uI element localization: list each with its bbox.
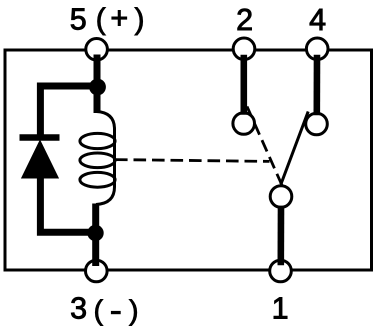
wire dashed mechanical linkage (coil to armature)	[115, 160, 270, 162]
relay body outline	[5, 50, 372, 270]
diode D1 cathode bar	[20, 134, 60, 141]
contact pin 1 (common)	[270, 186, 292, 208]
terminal pin 1	[270, 260, 292, 282]
junction dot top	[89, 79, 106, 96]
wire pin 2 to its contact	[241, 55, 248, 115]
wire pin 1 to common contact	[277, 206, 284, 265]
terminal pin 3	[86, 260, 108, 282]
contact pin 2 (normally closed)	[233, 113, 255, 135]
wire coil bottom to bottom junction to pin 3	[92, 204, 99, 267]
wire diode branch bottom (diode anode to bottom junction)	[40, 177, 95, 232]
wire armature solid (common to pin 4 contact)	[281, 112, 308, 185]
wire pin 5 to top junction to coil top	[94, 55, 101, 114]
terminal pin 2	[233, 38, 255, 60]
svg-text:(: (	[96, 3, 106, 36]
coil L1 loop 2	[80, 153, 115, 168]
svg-text:): )	[129, 295, 138, 326]
svg-text:3: 3	[70, 292, 87, 326]
terminal pin 5	[86, 39, 108, 61]
terminal pin 4	[306, 38, 328, 60]
coil L1 loop 3	[80, 172, 115, 187]
junction dot bottom	[87, 225, 103, 241]
wire pin 4 to its contact	[313, 55, 320, 115]
label pin 3 (-)	[70, 292, 138, 326]
svg-text:4: 4	[309, 3, 326, 37]
svg-text:+: +	[110, 1, 128, 35]
svg-text:(: (	[94, 295, 104, 326]
svg-text:5: 5	[70, 2, 87, 36]
wire dashed armature alternate position (to pin 2 contact)	[247, 107, 283, 188]
wire diode branch top (junction to diode cathode)	[40, 86, 97, 136]
diode D1 anode triangle	[22, 141, 59, 179]
contact pin 4 (normally open)	[306, 113, 328, 135]
svg-text:2: 2	[236, 3, 253, 37]
svg-text:): )	[135, 3, 145, 36]
svg-text:1: 1	[272, 292, 289, 326]
label pin 5 (+)	[70, 1, 145, 36]
coil L1 loop 1	[80, 133, 115, 148]
coil L1 leads and return wire	[96, 112, 115, 205]
